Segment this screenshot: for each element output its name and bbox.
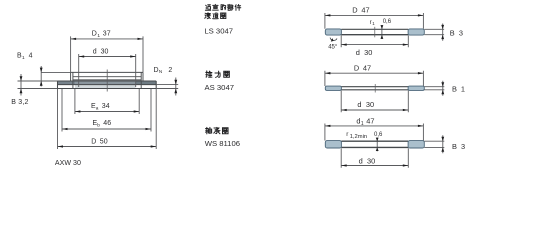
dimension Ea 34 xyxy=(75,89,139,114)
labels left drawing xyxy=(11,31,172,167)
圈 (推力圈) xyxy=(224,71,230,77)
pocket / d extension verticals xyxy=(79,54,136,87)
svg-text:D: D xyxy=(354,64,359,73)
Ea arrows xyxy=(75,110,81,112)
D arrows xyxy=(58,145,64,147)
B 3 dim xyxy=(424,24,444,41)
roller row light shading xyxy=(75,85,136,89)
svg-text:37: 37 xyxy=(103,31,111,38)
svg-text:D: D xyxy=(352,6,357,15)
适 xyxy=(205,4,210,10)
svg-text:b: b xyxy=(97,122,100,128)
svg-text:30: 30 xyxy=(367,156,375,165)
dimension B 3,2 extension lines xyxy=(18,74,58,96)
道 xyxy=(213,13,219,19)
svg-text:B: B xyxy=(452,142,457,151)
centerline tick xyxy=(374,27,376,38)
Eb arrows xyxy=(62,128,68,130)
svg-text:D: D xyxy=(92,31,97,38)
svg-text:1: 1 xyxy=(97,33,100,39)
部 xyxy=(228,4,233,10)
svg-text:d: d xyxy=(357,100,361,109)
圈 xyxy=(221,13,226,19)
svg-text:AS 3047: AS 3047 xyxy=(205,83,235,92)
45 deg leader xyxy=(330,38,337,41)
band lines xyxy=(341,28,408,30)
svg-text:46: 46 xyxy=(103,120,111,127)
r1 dim line xyxy=(381,25,383,39)
推 xyxy=(206,71,212,78)
dimension D 50 xyxy=(58,89,157,149)
svg-text:d: d xyxy=(359,156,363,165)
cage box xyxy=(71,72,143,88)
svg-text:2: 2 xyxy=(168,67,172,74)
svg-text:34: 34 xyxy=(102,103,110,110)
band outline xyxy=(58,81,157,89)
svg-text:WS 81106: WS 81106 xyxy=(205,139,240,148)
svg-text:50: 50 xyxy=(100,139,108,146)
滚 xyxy=(205,13,211,19)
svg-text:0,6: 0,6 xyxy=(374,132,383,138)
DN arrows xyxy=(174,80,177,85)
svg-text:r: r xyxy=(370,20,372,26)
svg-text:AXW 30: AXW 30 xyxy=(55,159,81,167)
svg-text:B: B xyxy=(452,85,457,94)
svg-text:d: d xyxy=(356,48,360,57)
d 30 dim xyxy=(341,35,408,47)
svg-text:D: D xyxy=(154,67,159,74)
dimension DN 2 xyxy=(156,78,178,96)
svg-text:B: B xyxy=(450,28,455,37)
centerline tick xyxy=(106,70,108,92)
svg-text:47: 47 xyxy=(363,64,371,73)
dimension Eb 46 xyxy=(62,89,151,132)
svg-text:47: 47 xyxy=(361,6,369,15)
宜 xyxy=(213,4,219,10)
svg-text:0,6: 0,6 xyxy=(383,19,392,25)
svg-text:1: 1 xyxy=(372,21,375,26)
svg-text:3: 3 xyxy=(461,142,465,151)
轴 xyxy=(205,127,211,134)
svg-text:1: 1 xyxy=(461,85,465,94)
D1 arrows xyxy=(71,38,77,40)
svg-text:45°: 45° xyxy=(328,45,338,51)
svg-text:4: 4 xyxy=(29,53,33,60)
svg-text:N: N xyxy=(159,69,162,74)
svg-text:LS 3047: LS 3047 xyxy=(204,26,233,35)
svg-text:30: 30 xyxy=(364,48,372,57)
dimension D1 37 xyxy=(71,36,143,72)
blue ends xyxy=(325,29,341,35)
B arrows xyxy=(20,76,23,81)
件 xyxy=(235,4,241,10)
svg-text:47: 47 xyxy=(366,117,374,126)
roller strip fill xyxy=(58,81,157,84)
dimension B1 4 xyxy=(41,66,70,87)
svg-text:a: a xyxy=(96,106,99,111)
svg-text:30: 30 xyxy=(366,100,374,109)
svg-text:1: 1 xyxy=(361,121,364,127)
svg-text:B 3,2: B 3,2 xyxy=(11,99,28,106)
right end fill darker xyxy=(136,81,157,84)
svg-text:D: D xyxy=(91,139,96,146)
svg-text:d: d xyxy=(93,49,97,56)
arrows left drawing xyxy=(20,38,178,148)
svg-text:3: 3 xyxy=(459,28,463,37)
svg-text:1,2min: 1,2min xyxy=(350,134,367,140)
d arrows xyxy=(79,55,85,57)
svg-text:1: 1 xyxy=(22,55,25,61)
的 xyxy=(221,5,226,10)
D 47 dim xyxy=(325,13,424,29)
dimension d 30 xyxy=(79,56,136,58)
left end fill darker xyxy=(58,81,75,84)
承 xyxy=(214,127,220,133)
力 xyxy=(215,71,220,77)
B1 arrows (outside span pointing in) xyxy=(40,68,43,73)
svg-text:30: 30 xyxy=(101,49,109,56)
圈 (轴承圈) xyxy=(222,128,228,134)
